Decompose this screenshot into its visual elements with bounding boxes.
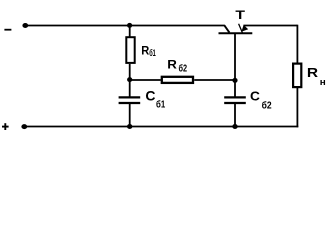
svg-text:б2: б2 xyxy=(179,64,188,75)
terminal minus dot xyxy=(22,23,28,28)
svg-text:б1: б1 xyxy=(156,99,165,111)
terminal plus dot xyxy=(21,124,27,129)
wire RH bottom lead xyxy=(296,88,298,127)
capacitor C62 xyxy=(224,97,246,103)
resistor RH xyxy=(293,64,301,88)
svg-text:б1: б1 xyxy=(149,48,156,58)
wire base lead down xyxy=(234,33,236,96)
label C62 xyxy=(250,89,272,112)
svg-text:R: R xyxy=(167,57,177,71)
svg-text:н: н xyxy=(320,76,326,87)
wire to R62 left xyxy=(130,79,161,81)
label C61 xyxy=(145,88,165,110)
wire R61 top lead xyxy=(129,26,131,37)
wire R62 right to base node xyxy=(194,79,235,81)
wire C62 bottom lead xyxy=(234,104,236,127)
label RH xyxy=(307,65,326,87)
wire R61 bottom lead down to C61 xyxy=(129,64,131,97)
node junction top of R61 xyxy=(127,23,132,28)
node junction R61 / R62 xyxy=(127,77,132,82)
resistor R61 xyxy=(126,37,134,63)
wire C61 bottom lead xyxy=(129,104,131,127)
wire top rail xyxy=(25,25,225,27)
svg-text:C: C xyxy=(250,89,260,104)
svg-text:C: C xyxy=(145,88,155,103)
terminal minus label xyxy=(4,29,11,31)
svg-text:T: T xyxy=(235,8,245,22)
node junction base / R62 xyxy=(232,78,237,83)
transistor T xyxy=(219,24,253,33)
transistor T label xyxy=(235,8,245,22)
resistor R62 xyxy=(162,77,193,83)
svg-text:б2: б2 xyxy=(262,100,272,112)
capacitor C61 xyxy=(119,97,141,103)
label R61 xyxy=(141,44,156,58)
wire bottom rail xyxy=(24,126,298,128)
svg-text:R: R xyxy=(307,65,319,80)
wire right drop to RH xyxy=(296,25,298,63)
label R62 xyxy=(167,57,187,74)
node junction bottom rail / C61 xyxy=(127,124,132,129)
node junction bottom rail / C62 xyxy=(232,124,237,129)
wire emitter top to right corner xyxy=(243,25,297,27)
terminal plus label xyxy=(2,123,9,130)
